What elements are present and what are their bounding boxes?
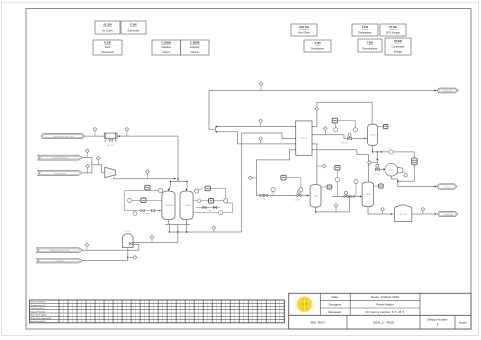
svg-text:Date:: Date:	[331, 295, 339, 299]
instrument cluster left of C-1000A	[124, 191, 126, 211]
legend box C-1000A	[152, 40, 181, 55]
svg-text:Design Number: Design Number	[427, 317, 447, 321]
wire T-300 feed	[332, 195, 363, 197]
instrument diamond regen gas inlet	[85, 243, 89, 247]
wire J-T branch	[376, 152, 378, 167]
flow arrows	[119, 135, 121, 137]
wire dried gas riser to LNG-100	[242, 133, 296, 232]
legend box AC-100	[95, 21, 120, 34]
svg-text:Designer:: Designer:	[329, 303, 342, 307]
wire storage tank outlet to condensate flag	[412, 213, 438, 215]
wire fuel gas to heater burner	[82, 248, 127, 261]
stream flag fuel gas	[37, 258, 83, 263]
legend box ST-200	[385, 38, 411, 55]
svg-text:J-T Valve: J-T Valve	[374, 174, 381, 176]
wire K-100 discharge	[114, 177, 176, 179]
legend box T-200	[352, 24, 378, 36]
LNG exchanger LNG-100	[296, 121, 312, 155]
adsorber column C-1000B	[180, 191, 193, 220]
svg-text:Air Cooler: Air Cooler	[102, 29, 113, 32]
svg-text:LNG-100: LNG-100	[300, 138, 307, 140]
controller FIC-100	[281, 175, 286, 180]
wire V-100 outlet to LPG	[398, 165, 438, 187]
wire T-300 bottoms to storage	[368, 207, 394, 214]
svg-text:Mass Flow (kg/h): Mass Flow (kg/h)	[31, 315, 47, 317]
svg-text:Storage: Storage	[394, 51, 403, 54]
svg-text:Natural Gas Feed: Natural Gas Feed	[52, 157, 67, 160]
svg-text:MID TEST: MID TEST	[311, 320, 325, 324]
svg-text:Condensate: Condensate	[443, 213, 453, 216]
svg-text:Heat Flow (kJ/h): Heat Flow (kJ/h)	[31, 320, 46, 323]
node adsorber outlet manifold	[168, 220, 170, 225]
svg-text:Compressor: Compressor	[101, 51, 114, 54]
instrument diamond lower left of manifold	[150, 235, 154, 239]
valve at heater inlet	[129, 242, 133, 245]
svg-text:T-200: T-200	[362, 26, 369, 29]
svg-text:Temperature (C): Temperature (C)	[31, 304, 46, 307]
university logo emblem	[296, 296, 312, 312]
isolation valves X-100 on T-200 feed	[260, 194, 263, 196]
svg-text:Feed Gas Inlet: Feed Gas Inlet	[54, 172, 67, 175]
svg-text:Vapour Fraction: Vapour Fraction	[31, 310, 46, 313]
wire LNG-100 right port to T-100 top	[312, 102, 372, 126]
junction dots	[177, 178, 178, 179]
gas heater E-100	[123, 234, 134, 248]
svg-text:MR Valve: MR Valve	[342, 143, 349, 145]
node adsorber inlet manifold	[170, 180, 187, 182]
wire regeneration gas inlet to heater	[82, 245, 138, 251]
instrument diamond tank inlet	[381, 207, 385, 211]
svg-text:Reviewer:: Reviewer:	[328, 310, 342, 314]
svg-text:LPG Storage: LPG Storage	[386, 32, 400, 35]
control valve T-300 feed	[344, 195, 348, 198]
wire regeneration gas outlet line	[85, 135, 104, 137]
wire sales gas riser	[209, 91, 216, 130]
svg-text:Debutanizer: Debutanizer	[359, 32, 372, 35]
svg-text:Gas Heater: Gas Heater	[127, 29, 139, 32]
svg-text:Pressure (kPa): Pressure (kPa)	[31, 307, 45, 310]
svg-text:Regen: Regen	[145, 213, 150, 215]
air cooler AC-100	[104, 133, 117, 138]
storage tank ST-200	[394, 205, 411, 222]
instrument diamond on dried gas line	[259, 119, 263, 123]
svg-text:E-100: E-100	[125, 231, 131, 233]
legend box E-100	[121, 21, 146, 34]
controller TIC-100	[332, 118, 337, 123]
svg-text:Demethanizer: Demethanizer	[363, 47, 378, 50]
svg-text:C-1000B: C-1000B	[190, 41, 200, 44]
svg-text:X-100: X-100	[261, 199, 265, 201]
svg-text:Farrel Hakim: Farrel Hakim	[376, 303, 394, 307]
instrument diamond on K-100 discharge	[146, 170, 150, 174]
instrument diamond after AC-100	[125, 127, 129, 131]
instrument diamond on T-200 bottoms	[334, 204, 338, 208]
svg-text:T-100: T-100	[370, 135, 376, 137]
wire heater outlet to adsorbers	[133, 242, 178, 244]
svg-text:LNG-100: LNG-100	[299, 26, 310, 29]
svg-text:E-100: E-100	[130, 23, 137, 26]
svg-text:Condensate: Condensate	[392, 45, 406, 48]
wire T-200 bottoms	[316, 196, 350, 212]
svg-text:Dr. Kenny Lischer, S.T., M.T.: Dr. Kenny Lischer, S.T., M.T.	[366, 310, 405, 314]
svg-text:C-1000A: C-1000A	[161, 41, 171, 44]
instrument diamond on adsorber outlet manifold	[212, 226, 216, 230]
instrument diamond tank outlet	[421, 207, 425, 211]
stream flag regeneration gas inlet	[37, 248, 83, 253]
svg-text:C-1000B: C-1000B	[183, 205, 192, 207]
svg-text:K-100: K-100	[104, 41, 111, 44]
svg-text:K-100: K-100	[108, 172, 113, 174]
level gauge box T-100	[383, 125, 388, 129]
svg-text:LPG: LPG	[446, 186, 450, 188]
title block	[289, 293, 471, 329]
svg-text:Column: Column	[191, 51, 200, 54]
svg-text:T-100: T-100	[314, 42, 321, 45]
control valve LCV-100	[297, 194, 301, 197]
J-T valve	[375, 168, 379, 171]
controller TIC-200	[335, 165, 340, 170]
wire LNG-100 cold outlet 1	[216, 126, 296, 128]
wire LNG-100 left port 4 to T-200 feed	[256, 150, 310, 196]
svg-text:T-300: T-300	[367, 41, 374, 44]
svg-text:ST-200: ST-200	[394, 40, 402, 43]
accumulator drum V-100	[412, 158, 418, 165]
instrument cluster right of C-1000B	[195, 189, 199, 193]
legend box C-1000B	[181, 40, 210, 55]
svg-text:Regeneration Gas Inlet: Regeneration Gas Inlet	[50, 249, 70, 252]
level gauge box T-300	[379, 184, 384, 188]
wire T-100 bottoms	[373, 146, 415, 158]
deethanizer T-100	[368, 124, 378, 145]
debutanizer T-200	[310, 185, 321, 208]
adsorber column C-1000A	[162, 191, 175, 220]
svg-text:Stream Number: Stream Number	[31, 301, 46, 304]
legend box LNG-100	[291, 24, 317, 36]
svg-text:AC-100: AC-100	[103, 23, 112, 26]
instrument diamond on cold outlet 2	[259, 137, 263, 141]
svg-text:T-200: T-200	[313, 196, 319, 198]
svg-text:Regeneration Gas Outlet: Regeneration Gas Outlet	[53, 135, 74, 138]
stream summary table	[30, 300, 285, 323]
svg-text:Regen: Regen	[207, 210, 212, 212]
svg-text:T-300: T-300	[365, 194, 371, 196]
output flag sales gas	[438, 88, 459, 93]
instrument diamond on regen outlet	[93, 127, 97, 131]
svg-text:AC-100: AC-100	[107, 144, 115, 147]
wire T-300 overhead recycle	[312, 150, 368, 182]
svg-text:ST-200: ST-200	[400, 214, 406, 216]
instrument diamond on T-200 feed riser	[248, 176, 252, 180]
wire LNG-100 to T-200 top feed	[312, 144, 317, 185]
svg-text:Fuel Gas: Fuel Gas	[56, 261, 64, 263]
wire sales gas line	[209, 90, 438, 92]
svg-text:Feed: Feed	[105, 46, 111, 49]
instrument diamond on T-100 feed riser	[315, 107, 319, 111]
compressor K-100	[105, 167, 116, 177]
legend box K-100	[93, 40, 122, 55]
instrument diamond at J-T valve	[368, 161, 372, 165]
instrument diamond fuel gas	[133, 256, 137, 260]
svg-text:Molar Flow (kgmole/h): Molar Flow (kgmole/h)	[31, 317, 52, 320]
svg-text:Gas Chiller: Gas Chiller	[298, 32, 310, 35]
wire regeneration recycle down	[177, 224, 179, 242]
output flag LPG	[438, 184, 458, 189]
svg-text:C-1000A: C-1000A	[164, 204, 173, 207]
svg-text:Senin, 3 Maret 2023: Senin, 3 Maret 2023	[371, 295, 399, 299]
compressor K-200	[385, 163, 398, 176]
stream flag feed gas inlet	[38, 170, 82, 175]
output flag condensate	[438, 211, 458, 216]
stream flag natural gas feed	[38, 155, 82, 160]
wire K-200 discharge	[391, 176, 398, 181]
svg-text:Scale:: Scale:	[459, 320, 467, 324]
transmitter circle on T-100 bottoms	[389, 150, 393, 154]
instrument diamond on T-200 top feed	[322, 164, 326, 168]
svg-text:Column: Column	[162, 51, 171, 54]
wire LNG-100 cold outlet 2	[216, 132, 296, 144]
svg-text:LCV-100: LCV-100	[294, 200, 300, 202]
legend box ST-100	[380, 24, 406, 36]
demethanizer T-300	[362, 182, 373, 207]
svg-text:K-200: K-200	[389, 170, 394, 172]
svg-text:SOAL 2 – P&ID: SOAL 2 – P&ID	[373, 320, 395, 324]
svg-text:Adsorber: Adsorber	[161, 46, 171, 49]
svg-text:ST-100: ST-100	[389, 26, 397, 29]
legend box T-300	[358, 39, 382, 52]
legend box T-100	[304, 40, 331, 52]
wire AC-100 outlet downcomer	[177, 136, 179, 181]
control valve mixed refrigerant	[348, 137, 352, 140]
svg-text:Adsorber: Adsorber	[190, 46, 200, 49]
svg-text:Deethanizer: Deethanizer	[311, 48, 324, 51]
level gauge box T-200	[327, 185, 332, 189]
instrument diamond on MR line	[323, 127, 327, 131]
wire mixed refrigerant line to T-100	[312, 135, 368, 139]
svg-text:Sales Gas: Sales Gas	[444, 90, 453, 92]
wire feed gas header	[82, 158, 92, 173]
stream flag regeneration gas outlet	[42, 134, 85, 139]
instrument diamond at feed junction	[96, 156, 100, 160]
instrument diamond on sales gas	[259, 82, 263, 86]
